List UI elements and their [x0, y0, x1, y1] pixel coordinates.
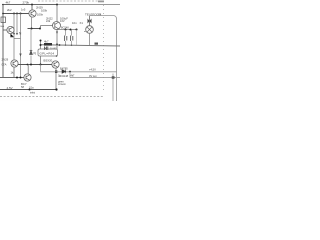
transistor Q6 — [24, 74, 31, 81]
resistor R1 (box on left rail) — [1, 17, 6, 23]
node junction square x=56 y=71.5 — [55, 71, 57, 73]
svg-text:X1: X1 — [80, 21, 84, 25]
wire tick left of lamp — [84, 31, 86, 33]
node battery wire end — [55, 88, 57, 90]
wire earphone to right edge — [90, 16, 117, 102]
svg-text:2N29: 2N29 — [2, 58, 9, 62]
wire emitter bus y=29.5 — [57, 29, 77, 31]
node second rail joins left rail — [2, 13, 4, 15]
wire link x=70 between rails — [69, 72, 71, 78]
node mid rail x=59.5 — [59, 44, 61, 46]
node battery wire at x=29.5 — [29, 89, 31, 91]
wire Q3 base from left rail — [3, 29, 7, 31]
diode D4 on y=71.5 — [62, 70, 66, 74]
node on second rail at x=17 — [16, 13, 18, 15]
wire IC pin top x=57 — [56, 45, 58, 50]
vertical wire x=14 — [13, 14, 15, 61]
transistor Q4 — [11, 60, 18, 67]
wire Q2 emitter down with arrow — [56, 30, 58, 45]
wire lamp bottom to mid rail — [89, 33, 91, 45]
label blob on mid rail right — [95, 43, 99, 45]
node at x=70 on diode rail — [69, 71, 71, 73]
transistor Q2 — [53, 22, 61, 30]
wire top rail right part — [57, 4, 120, 6]
diode rail y=71.5 — [41, 65, 118, 72]
resistor R5 thick bar on mid rail — [44, 43, 52, 46]
wire jog up x=40.5 — [40, 26, 42, 29]
transistor Q1 — [29, 10, 36, 17]
svg-text:S1a: S1a — [29, 85, 34, 89]
node at 65.5 — [65, 29, 67, 31]
wire Q2 collector to top rail — [56, 5, 58, 22]
lamp / transducer circle with X — [86, 26, 94, 34]
node x=20.5 on ground rail — [20, 77, 22, 79]
wire second rail y=13.5 — [3, 13, 29, 15]
label tiny top right corner — [98, 1, 104, 3]
svg-text:4k7: 4k7 — [71, 75, 76, 78]
wire Q1 collector to top rail — [31, 5, 33, 11]
wire x=76.5 down — [76, 30, 78, 46]
node Q2 collector on rail — [56, 4, 58, 6]
node x=40.5 on base bus — [40, 64, 42, 66]
svg-text:4,5V: 4,5V — [7, 86, 13, 90]
node x=17 on ground rail — [16, 77, 18, 79]
dashed enclosure bottom border — [0, 96, 104, 98]
svg-text:1N41: 1N41 — [50, 47, 57, 51]
node on second rail at x=20.5 — [20, 13, 22, 15]
battery wire y=89.5 — [0, 89, 57, 91]
wire base bus y=64.5 — [18, 64, 52, 66]
node wire end at 76.5 — [76, 29, 78, 31]
svg-text:uA: uA — [1, 24, 5, 28]
dashed enclosure top border — [38, 0, 104, 2]
wire IC pin bottom x=40.5 — [40, 56, 42, 65]
wire top positive rail — [2, 4, 57, 6]
wire left supply rail — [2, 5, 4, 78]
svg-text:4k7: 4k7 — [44, 40, 49, 44]
node top of x=40.5 — [40, 40, 42, 42]
svg-text:100n: 100n — [37, 13, 44, 17]
crystal / bowtie symbol above lamp — [89, 16, 91, 26]
svg-text:+4,5V: +4,5V — [89, 68, 96, 72]
wire Q5 emitter down — [55, 68, 57, 90]
svg-text:tekst: tekst — [30, 91, 35, 94]
svg-text:1n5: 1n5 — [21, 8, 26, 12]
wire x=113 down to edge — [112, 74, 114, 102]
ground rail y=77.5 left part — [0, 77, 24, 79]
svg-text:22k: 22k — [46, 19, 51, 23]
svg-text:270k: 270k — [23, 1, 30, 5]
svg-text:16V: 16V — [60, 19, 65, 23]
vertical wire x=20.5 potentiometer leg — [20, 14, 22, 78]
transistor Q3 — [7, 26, 14, 33]
node at 70.5 — [70, 29, 72, 31]
wire base link y=28.5 — [28, 28, 41, 30]
svg-text:0V out: 0V out — [89, 74, 97, 78]
svg-text:07A: 07A — [2, 63, 7, 67]
arrowhead on x=14 wire — [13, 33, 15, 35]
node x=113 on ground rail — [112, 76, 115, 79]
svg-text:BAT85: BAT85 — [60, 67, 68, 71]
svg-text:GPL=P04: GPL=P04 — [40, 52, 55, 56]
arrow on x=20.5 wire — [19, 54, 21, 57]
node at (31.5,28.5) — [31, 28, 33, 30]
node at (40,28.5) — [39, 28, 41, 30]
transistor Q5 — [52, 61, 59, 68]
capacitor C2 — [71, 30, 73, 46]
vertical wire x=17 — [16, 14, 18, 35]
mid rail y=45.5 — [41, 45, 120, 46]
node on second rail at x=14 — [13, 13, 15, 15]
IC box with rounded corners — [38, 49, 58, 56]
svg-text:BSX20: BSX20 — [44, 59, 53, 63]
node x=40.5 on mid rail — [40, 44, 42, 46]
wire Q1 emitter down — [31, 17, 33, 29]
ground rail y=77.5 right part — [70, 77, 120, 79]
zener diode D1 on x=31 — [30, 29, 32, 65]
wire Q4 emitter down to rail — [13, 67, 15, 77]
capacitor C1 — [65, 30, 67, 46]
svg-text:100k: 100k — [41, 9, 48, 13]
wire Q3 emitter hook — [11, 34, 15, 37]
svg-text:2k2: 2k2 — [7, 8, 12, 12]
node cap C1 bottom on mid rail — [65, 44, 66, 45]
node Q2 emitter on mid rail — [56, 44, 58, 46]
node Q1 collector on top rail — [31, 4, 33, 6]
node IC box bottom right — [56, 55, 58, 57]
node cap C2 bottom on mid rail — [71, 45, 72, 46]
dotted vertical boundary line — [103, 1, 105, 90]
node x=27.5 on base bus — [27, 64, 29, 66]
wire drop to Q6 — [27, 65, 29, 75]
diode D3 below resistor — [47, 47, 49, 51]
svg-text:10n: 10n — [72, 21, 77, 25]
vertical wire x=40.5 upper — [40, 41, 42, 50]
diode D2 below resistor — [45, 47, 47, 51]
node x=31 on base bus — [30, 64, 32, 66]
svg-text:4k7: 4k7 — [6, 1, 11, 5]
wire to Q2 base y=25.5 — [41, 25, 53, 27]
arrowhead Q2 emitter — [56, 32, 58, 35]
arrowhead bottom of x=17 wire — [16, 33, 18, 35]
svg-text:stroom: stroom — [58, 82, 66, 86]
wire stub y=38 — [14, 38, 21, 40]
node left rail top corner — [2, 4, 4, 6]
